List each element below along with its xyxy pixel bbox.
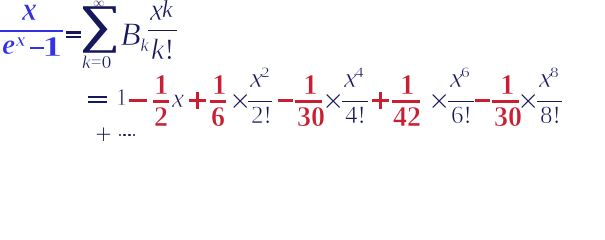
- fraction 1/30 numerator 1: [303, 84, 318, 86]
- red plus operator vertical stroke: [196, 92, 199, 109]
- fraction bar of x^6/6!: [448, 101, 474, 102]
- numerator x of x^k/k!: [150, 9, 163, 11]
- infinity: [93, 3, 104, 5]
- numerator x (blue): [22, 9, 37, 11]
- fraction 1/30 bar: [295, 100, 322, 102]
- ellipsis dot 4: [133, 134, 136, 137]
- numerator x of x^6/6!: [450, 77, 463, 79]
- multiplication sign: [230, 100, 250, 102]
- denominator 2!: [251, 115, 272, 117]
- superscript 8: [550, 72, 559, 74]
- blue fraction bar: [0, 30, 63, 32]
- fraction bar of x^2/2!: [248, 101, 272, 102]
- superscript k of x^k: [162, 9, 173, 11]
- red minus operator: [129, 99, 147, 102]
- equals sign row1 bottom bar: [66, 36, 81, 39]
- red plus operator horizontal stroke: [189, 99, 206, 102]
- denominator k!: [151, 49, 174, 51]
- fraction 1/6 denominator 6: [211, 117, 225, 119]
- equals sign row2 top bar: [88, 96, 107, 98]
- fraction bar of x^k/k!: [148, 30, 177, 31]
- leading term 1: [116, 97, 127, 99]
- multiplication sign: [518, 100, 538, 102]
- fraction bar of x^8/8!: [537, 101, 562, 102]
- fraction 1/30 denominator 30: [297, 117, 325, 119]
- fraction bar of x^4/4!: [342, 101, 368, 102]
- superscript 2: [261, 72, 270, 74]
- fraction 1/2 denominator 2: [154, 117, 168, 119]
- fraction 1/2 numerator 1: [154, 84, 169, 86]
- red plus operator horizontal stroke: [372, 99, 389, 102]
- summation sigma symbol: [0, 0, 130, 60]
- fraction 1/30 bar: [492, 100, 519, 102]
- denominator minus sign: [30, 47, 44, 49]
- superscript 4: [355, 72, 364, 74]
- fraction 1/42 numerator 1: [400, 84, 415, 86]
- fraction 1/30 denominator 30: [494, 117, 522, 119]
- fraction 1/42 denominator 42: [393, 117, 421, 119]
- denominator 8!: [540, 115, 561, 117]
- numerator x of x^4/4!: [344, 77, 357, 79]
- fraction 1/6 numerator 1: [212, 84, 227, 86]
- red minus operator: [475, 99, 490, 102]
- ellipsis dot 1: [119, 134, 122, 137]
- numerator x of x^8/8!: [539, 77, 552, 79]
- red minus operator: [278, 99, 293, 102]
- denominator 4!: [345, 115, 366, 117]
- equals sign row2 bottom bar: [88, 101, 107, 103]
- denominator exponent x: [16, 40, 26, 42]
- fraction 1/30 numerator 1: [500, 84, 515, 86]
- superscript 6: [461, 72, 470, 74]
- variable x: [172, 97, 184, 99]
- Bernoulli number symbol B: [121, 34, 141, 36]
- subscript k of B: [141, 44, 149, 46]
- k=0: [82, 61, 111, 63]
- plus sign row3: [95, 134, 112, 136]
- denominator 6!: [451, 115, 472, 117]
- ellipsis dot 2: [123, 134, 126, 137]
- equals sign row1 top bar: [66, 31, 81, 34]
- ellipsis dot 3: [128, 134, 131, 137]
- fraction 1/6 bar: [210, 100, 226, 102]
- numerator x of x^2/2!: [250, 77, 263, 79]
- denominator 1: [42, 46, 62, 48]
- fraction 1/42 bar: [392, 100, 420, 102]
- red plus operator vertical stroke: [379, 92, 382, 109]
- denominator e: [2, 44, 15, 46]
- fraction 1/2 bar: [153, 100, 169, 102]
- multiplication sign: [323, 100, 343, 102]
- multiplication sign: [429, 100, 449, 102]
